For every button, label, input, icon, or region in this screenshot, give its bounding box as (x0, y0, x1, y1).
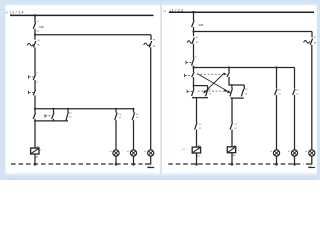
wire S1 to node B (193, 66, 195, 68)
wire node A down to coil K1 (34, 121, 36, 148)
parallel branch bottom line (35, 120, 68, 122)
pushbutton S2 fwd blade (192, 72, 194, 77)
wire F3 down to lamp P3 (150, 47, 152, 150)
pushbutton S2 blade (33, 90, 35, 96)
text labels right page (163, 9, 317, 168)
wire P3 to L01 corner (145, 156, 151, 164)
junction coil wire at L01 (34, 163, 37, 166)
pushbutton S1 blade (33, 74, 35, 80)
right branch corner from rail2 (150, 35, 152, 40)
svg-text:L1 / 1.4: L1 / 1.4 (10, 10, 24, 14)
wire F2 to S1 p2 (193, 44, 195, 58)
svg-text:-S0B: -S0B (38, 26, 44, 29)
overload contact F6 blade (310, 38, 312, 44)
rail 2 page2 (194, 31, 313, 33)
contact S4 actuator flag (45, 114, 50, 117)
contact K1 lamp leg 2 blade (x133.5) (132, 112, 134, 120)
right branch corner from rail2 p2 (311, 32, 313, 38)
pushbutton S1 actuator flag (29, 75, 34, 78)
switch S0B p2 blade (192, 21, 195, 28)
contact K1 13/14 blade (leg x68) (66, 112, 68, 121)
net L1 top rail page2 (169, 11, 314, 13)
wire lamp leg1 down to P1 (115, 120, 117, 150)
junction box2 top left (231, 84, 233, 86)
svg-text:=1: =1 (5, 10, 9, 14)
wire stub box2 leg1 (231, 85, 233, 89)
junction S3 top (228, 66, 230, 68)
coil K1 diagonal (31, 149, 39, 154)
wire lamp leg1 p2 from rail3 (276, 68, 278, 89)
interlock cross link D1 (197, 74, 230, 93)
overload contact F3 squiggle (144, 43, 150, 46)
wire P6 to L01 corner (306, 156, 312, 164)
coil K2 box (192, 147, 200, 153)
wire stub lamp leg2 (133, 109, 135, 113)
wire stubs leg x53.5 (53, 109, 55, 121)
junction rail1/main (34, 14, 37, 17)
contact S3b blade box2 leg1 (230, 88, 233, 96)
contact S4 blade (leg x53.5) (52, 113, 54, 119)
overload contact F2 p2 blade (192, 38, 194, 44)
wire leg x35 lower stub (34, 119, 36, 121)
junction box1 top left (193, 85, 195, 87)
junction rail1/main p2 (192, 11, 195, 14)
wire lamp leg2 p2 corner from rail3 (294, 68, 296, 89)
wire coil K1 to L01 rail (34, 154, 36, 164)
L01 label underline (147, 167, 154, 169)
wire F6 down to lamp P6 (311, 45, 313, 150)
interlock cross link D1 arrowhead (228, 91, 231, 93)
pushbutton S3 rev blade (227, 72, 229, 77)
contact K3 lamp leg2 blade (293, 89, 295, 95)
rail 2 (after S0B) (35, 34, 151, 36)
junction dots right page (192, 11, 296, 166)
switch S0B blade (33, 22, 36, 29)
net L01 dashed rail page2 (168, 164, 315, 168)
contact K3 NC interlock blade (195, 122, 197, 129)
wire P5 to L01 (294, 156, 296, 164)
node A branch line top (35, 108, 134, 110)
wire stubs leg x35 (34, 109, 36, 113)
lamp P6 (309, 150, 315, 156)
wire lamp leg1 to P4 (276, 95, 278, 150)
wire main drop rail1 to S0B (34, 15, 36, 22)
junction box bottom left (34, 120, 36, 122)
mech link dashed lower (198, 90, 225, 92)
wire interlock to coil K3 (231, 130, 233, 147)
L01 label underline p2 (308, 167, 315, 169)
wire P4 to L01 (276, 156, 278, 164)
contact S2b actuator flag (187, 90, 192, 93)
wire S2 to box1 (193, 77, 195, 86)
junction P2 at L01 (132, 163, 135, 166)
junction lamp leg1 top (115, 108, 117, 110)
box2 bottom line (231, 97, 244, 99)
overload contact F2 p2 squiggle (187, 41, 193, 44)
overload contact F2 squiggle (27, 43, 33, 46)
contact K2 NC interlock blade (230, 122, 232, 129)
lamp P4 (273, 150, 279, 156)
pushbutton S2 actuator flag (29, 91, 34, 94)
wire box2 down to K3 interlock (231, 98, 233, 123)
coil K3 box (227, 147, 235, 153)
box1 top line (194, 85, 208, 87)
stop button S1 p2 blade (192, 58, 194, 66)
junction P1 at L01 (115, 163, 118, 166)
svg-text:-S0B: -S0B (198, 24, 204, 27)
junction dots left page (34, 14, 135, 166)
wire stub leg x68 (67, 109, 69, 112)
junction leg x53.5 top (53, 108, 55, 110)
viewer left margin band (0, 0, 6, 180)
viewer top margin band (0, 0, 320, 6)
contact S3 blade (leg x35) (33, 113, 35, 119)
wire stub lamp leg1 (115, 109, 117, 113)
junction K2 wire at L01 (195, 163, 198, 166)
interlock cross link D2 arrowhead (204, 91, 207, 93)
interlock cross link D2 (204, 73, 225, 93)
lamp P1 (113, 150, 119, 156)
mech link lower arrowhead (224, 89, 227, 91)
svg-text:L1 / 2.3: L1 / 2.3 (170, 9, 184, 13)
contact K3 13/14 blade box1 leg2 (206, 89, 208, 97)
box1 bottom line (192, 97, 208, 99)
lamp P5 (291, 150, 297, 156)
wire S0B to rail2 (34, 29, 36, 40)
junction P4 at L01 (275, 163, 278, 166)
wire box1 down to K2 interlock (196, 98, 198, 123)
wire P2 to L01 (133, 156, 135, 164)
net L01 dashed rail (11, 164, 154, 168)
coil K1 box (31, 148, 39, 154)
junction node B (192, 66, 194, 68)
lamp P3 (148, 150, 154, 156)
junction K3 wire at L01 (231, 163, 234, 166)
stop button S1 actuator flag (186, 61, 191, 64)
wire lamp leg2 down to P2 (133, 120, 135, 150)
junction rail2/main (34, 34, 36, 36)
junction box1 bottom left (192, 97, 194, 99)
box2 top line (232, 84, 244, 86)
node B rail 3 (194, 67, 295, 69)
viewer bottom margin band (0, 172, 320, 180)
wire stub box2 leg2 (243, 85, 245, 89)
wire stub box1 leg1 (193, 86, 195, 89)
mech link S2-S3 arrowhead (224, 73, 227, 75)
wire stub box1 leg2 (207, 86, 209, 89)
junction node A (34, 108, 36, 110)
wire node B stub down (193, 68, 195, 73)
junction leg x68 top (67, 108, 69, 110)
contact K2 13/14 blade box2 leg2 (241, 89, 243, 97)
pushbutton S2 actuator flag (185, 74, 190, 77)
net L1 top rail (10, 14, 154, 16)
lamp P2 (130, 150, 136, 156)
wire main drop to S0B p2 (193, 12, 195, 21)
viewer right margin band (317, 0, 320, 180)
wire S1 to S2 (34, 80, 36, 90)
page separator line (160, 4, 161, 174)
junction lamp leg2 top (133, 108, 135, 110)
wire S0B to rail2 p2 (193, 27, 195, 36)
overload contact F6 squiggle (304, 41, 310, 44)
junction box2 bottom left (231, 97, 233, 99)
wire S2 to node A (34, 95, 36, 108)
wire F2 to S1 (34, 47, 36, 74)
overload contact F3 blade (149, 41, 151, 47)
mech link dashed S2-S3 (197, 73, 224, 75)
text labels left page (5, 10, 156, 168)
contact S2b blade box1 leg1 (192, 89, 194, 96)
overload contact F2 blade (33, 41, 35, 47)
wire coil K2 to L01 (196, 153, 198, 164)
contact K1 lamp leg 1 blade (x116) (115, 112, 117, 120)
wire P1 to L01 (115, 156, 117, 164)
junction lamp leg1 top p2 (275, 66, 277, 68)
wire lamp leg2 to P5 (294, 95, 296, 150)
junction P5 at L01 (293, 163, 296, 166)
wire stub S3 rev top (228, 68, 230, 72)
wire coil K3 to L01 (231, 153, 233, 164)
junction rail2/main p2 (192, 30, 194, 32)
wire S3 to box2 corner (229, 77, 232, 85)
coil K2 diagonal (193, 148, 201, 153)
coil K3 diagonal (228, 147, 236, 152)
wire interlock to coil K2 (196, 130, 198, 147)
svg-text:=2: =2 (163, 9, 167, 13)
contact K2 lamp leg1 blade (275, 89, 277, 95)
